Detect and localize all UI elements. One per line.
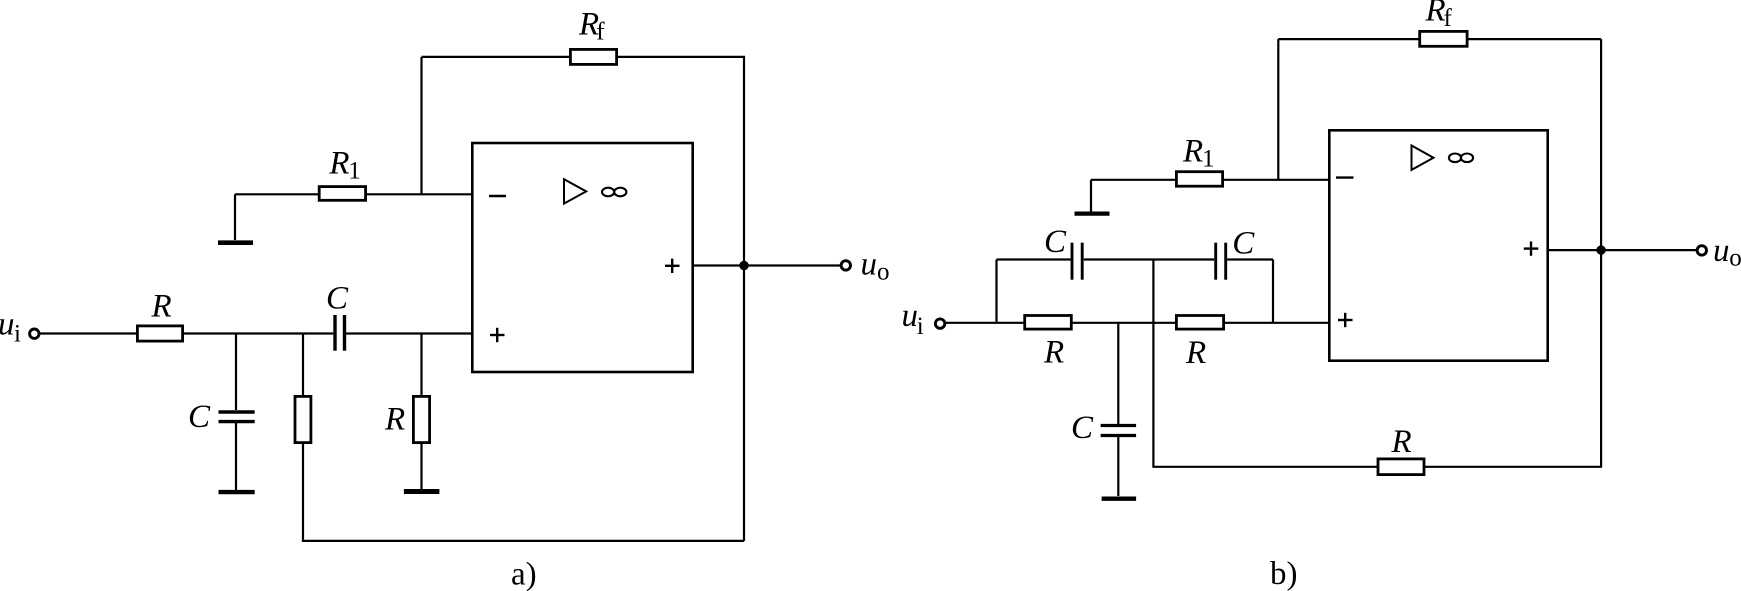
svg-text:R: R <box>151 289 172 325</box>
op-amp triangle (b) <box>1412 146 1434 170</box>
terminal uo (a) <box>841 261 850 270</box>
ground (b R1) <box>1075 211 1110 215</box>
svg-text:i: i <box>14 321 21 348</box>
top wire between capacitors (b) <box>1084 258 1215 260</box>
output wire (b) <box>1548 249 1697 251</box>
output node dot (a) <box>739 261 748 270</box>
svg-text:f: f <box>1444 5 1453 32</box>
resistor R (a input) <box>137 326 182 341</box>
svg-text:C: C <box>1044 224 1067 260</box>
svg-text:C: C <box>1232 226 1255 262</box>
wire between R boxes (b) <box>1071 322 1176 324</box>
ground (a R1) <box>218 240 253 245</box>
svg-text:R: R <box>328 146 349 182</box>
ground (b C) <box>1102 497 1137 501</box>
svg-text:R: R <box>1425 0 1446 29</box>
op-amp U1 box (a) <box>472 143 692 372</box>
svg-text:1: 1 <box>348 158 361 185</box>
plus sign output (b) <box>1524 247 1539 249</box>
ground (a node3) <box>404 489 440 494</box>
minus sign (a) <box>489 195 506 197</box>
drop from right C to plus wire (b) <box>1272 260 1274 323</box>
resistor vertical (a node2) <box>295 396 311 442</box>
svg-text:u: u <box>861 247 878 283</box>
junction vertical through bottom wire (b) <box>1152 260 1154 467</box>
node 3 drop (a) <box>420 334 422 396</box>
capacitor C left (b) <box>1071 243 1074 280</box>
plus sign input (a) <box>490 334 505 336</box>
svg-text:o: o <box>1729 245 1741 272</box>
svg-text:f: f <box>596 19 605 46</box>
resistor R vertical (a node3) <box>413 396 429 442</box>
top wire to C left (b) <box>997 258 1071 260</box>
svg-text:a): a) <box>511 557 537 591</box>
svg-text:R: R <box>384 402 405 438</box>
resistor R1 (a) <box>319 187 365 201</box>
output node dot (b) <box>1596 245 1605 254</box>
output wire (a) <box>694 264 841 266</box>
wire R1 to opamp minus (b) <box>1222 179 1329 181</box>
infinity symbol (b) <box>1449 154 1461 163</box>
resistor R second (b) <box>1176 316 1223 330</box>
ground (a C) <box>219 490 255 494</box>
capacitor C to ground (a) <box>219 410 255 413</box>
svg-text:R: R <box>1391 424 1412 460</box>
ground stub (a R1) <box>234 194 236 240</box>
resistor Rf (a) <box>570 49 616 64</box>
node A rise (b) <box>995 260 997 323</box>
minus sign (b) <box>1336 176 1354 178</box>
svg-text:R: R <box>1185 335 1206 371</box>
resistor R feedback (b) <box>1378 459 1424 475</box>
C to ground drop (b) <box>1117 323 1119 424</box>
svg-text:1: 1 <box>1202 146 1215 173</box>
node 2 drop (a) <box>302 334 304 396</box>
wire R1 to opamp minus <box>366 193 472 195</box>
svg-text:o: o <box>877 258 890 285</box>
plus sign input (b) <box>1338 319 1353 321</box>
terminal uo (b) <box>1697 246 1706 255</box>
svg-text:R: R <box>1182 134 1203 170</box>
ground stub (b R1) <box>1090 180 1092 212</box>
resistor R1 (b) <box>1176 172 1222 187</box>
svg-text:C: C <box>188 399 211 435</box>
terminal ui (b) <box>935 319 944 328</box>
wire series C to opamp <box>346 332 472 334</box>
series capacitor C (a) <box>333 315 336 351</box>
capacitor C right (b) <box>1214 243 1217 280</box>
wire R to series C <box>184 332 333 334</box>
wire to Rf (b) <box>1278 38 1419 40</box>
right vertical feedback wire (a) <box>743 57 745 541</box>
node 1 drop (a) <box>235 334 237 411</box>
svg-text:u: u <box>902 298 919 334</box>
wire ui to R (b) <box>946 322 1025 324</box>
resistor Rf (b) <box>1420 31 1467 46</box>
svg-text:u: u <box>0 307 15 343</box>
wire to opamp plus (b) <box>1223 322 1329 324</box>
resistor R first (b) <box>1025 316 1072 330</box>
wire to Rf (a) <box>422 56 571 58</box>
R1 branch wire left (a) <box>235 193 319 195</box>
R1 branch wire left (b) <box>1091 179 1176 181</box>
svg-text:u: u <box>1713 233 1730 269</box>
right vertical feedback wire (b) <box>1600 39 1602 467</box>
svg-text:R: R <box>1043 334 1064 370</box>
capacitor C to ground (b) <box>1101 424 1137 427</box>
op-amp triangle (a) <box>564 179 586 203</box>
svg-text:C: C <box>1071 410 1094 446</box>
bottom feedback wire (a) <box>302 540 744 542</box>
wire Rf to output vertical (a) <box>617 56 745 58</box>
bottom feedback wire (b) <box>1152 466 1377 468</box>
terminal ui (a) <box>30 329 39 338</box>
top wire after right C (b) <box>1227 258 1273 260</box>
plus sign output (a) <box>665 265 680 267</box>
infinity symbol (a) <box>602 188 614 197</box>
svg-text:C: C <box>326 281 349 317</box>
svg-text:i: i <box>917 313 924 340</box>
svg-text:b): b) <box>1270 556 1298 591</box>
wire Rf left vertical (a) <box>420 57 422 194</box>
wire ui to R <box>40 332 138 334</box>
wire node2 resistor to bottom feedback <box>302 443 304 541</box>
wire Rf left vertical (b) <box>1277 39 1279 180</box>
wire Rf to right vertical (b) <box>1467 38 1601 40</box>
op-amp U2 box (b) <box>1329 130 1547 360</box>
